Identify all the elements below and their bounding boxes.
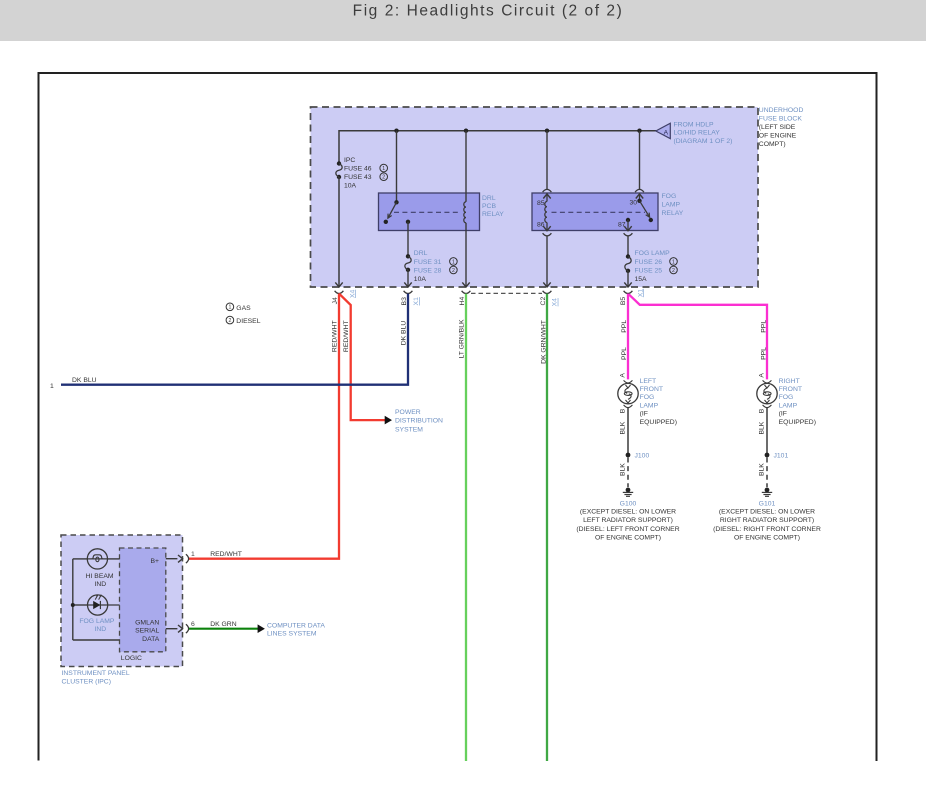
svg-text:FOG LAMP: FOG LAMP	[635, 250, 671, 257]
wire BLK dashed to ground	[766, 458, 768, 488]
svg-text:DRL: DRL	[414, 250, 428, 257]
svg-text:DK BLU: DK BLU	[72, 377, 97, 384]
svg-text:FUSE 28: FUSE 28	[414, 267, 442, 274]
svg-text:2: 2	[672, 268, 675, 274]
svg-text:G101: G101	[759, 500, 776, 507]
wire BLK dashed to ground	[627, 458, 629, 488]
svg-text:GMLAN: GMLAN	[135, 619, 159, 626]
svg-text:FROM HDLP: FROM HDLP	[674, 121, 714, 128]
svg-text:LAMP: LAMP	[779, 402, 798, 409]
svg-text:1: 1	[382, 166, 385, 172]
svg-text:(DIESEL: LEFT FRONT CORNER: (DIESEL: LEFT FRONT CORNER	[576, 526, 679, 533]
dashed link fog relay	[552, 211, 646, 213]
relay: FOG LAMP RELAY box	[532, 193, 658, 231]
svg-text:OF ENGINE COMPT): OF ENGINE COMPT)	[595, 535, 661, 542]
svg-text:OF ENGINE COMPT): OF ENGINE COMPT)	[734, 535, 800, 542]
svg-text:SERIAL: SERIAL	[135, 627, 159, 634]
svg-text:LOGIC: LOGIC	[121, 655, 142, 662]
svg-text:(DIESEL: RIGHT FRONT CORNER: (DIESEL: RIGHT FRONT CORNER	[713, 526, 821, 533]
switch: fog relay contacts 30/87	[637, 199, 641, 203]
svg-text:IND: IND	[94, 626, 106, 633]
svg-text:FRONT: FRONT	[640, 386, 663, 393]
svg-text:EQUIPPED): EQUIPPED)	[640, 419, 677, 426]
wire DK BLU: circuit 1 to B3	[61, 294, 408, 385]
svg-text:DIESEL: DIESEL	[236, 318, 260, 325]
logic block GMLAN	[120, 548, 166, 652]
svg-text:FUSE 26: FUSE 26	[635, 259, 663, 266]
node: junction fog relay pin30 feed	[637, 129, 641, 133]
wire PPL: branch to right fog lamp	[629, 294, 767, 379]
svg-text:FRONT: FRONT	[779, 386, 802, 393]
svg-text:1: 1	[191, 551, 195, 558]
svg-text:RED/WHT: RED/WHT	[210, 551, 242, 558]
IPC pin 1 B+ output	[166, 558, 178, 560]
svg-text:LEFT RADIATOR SUPPORT): LEFT RADIATOR SUPPORT)	[583, 517, 673, 524]
svg-text:(DIAGRAM 1 OF 2): (DIAGRAM 1 OF 2)	[674, 138, 733, 145]
fuse: IPC FUSE 46/43 10A	[337, 161, 341, 165]
ground G101	[765, 488, 770, 493]
IPC pin 6 GMLAN output	[166, 628, 178, 630]
svg-text:J101: J101	[774, 453, 789, 460]
node: junction fog relay coil feed	[545, 129, 549, 133]
connector cups at fuse block bottom	[335, 291, 344, 294]
svg-text:CLUSTER (IPC): CLUSTER (IPC)	[62, 679, 111, 686]
svg-text:X1: X1	[637, 289, 644, 298]
svg-text:FUSE BLOCK: FUSE BLOCK	[759, 115, 803, 122]
svg-text:RIGHT: RIGHT	[779, 378, 800, 385]
fuse: DRL FUSE 31/28 10A	[406, 254, 410, 258]
wire PPL: B5 to left fog lamp	[627, 294, 629, 380]
wire: DRL relay switch output to fuse	[407, 222, 409, 256]
underhood fuse block	[311, 107, 759, 287]
wire: fog fuse to B5	[627, 271, 629, 286]
coil: fog relay coil 85-86	[545, 202, 547, 223]
svg-text:DRL: DRL	[482, 195, 496, 202]
node: ipc left junction	[71, 603, 75, 607]
LED: FOG LAMP IND	[88, 604, 120, 606]
svg-text:DK GRN: DK GRN	[210, 621, 237, 628]
IPC internal wires	[73, 558, 88, 560]
node J100	[626, 453, 631, 458]
svg-text:BLK: BLK	[758, 421, 765, 434]
svg-text:X4: X4	[552, 298, 559, 307]
instrument panel cluster (IPC) box	[61, 535, 183, 667]
wire BLK to junction	[627, 408, 629, 453]
node: junction DRL coil feed	[464, 129, 468, 133]
svg-text:PPL: PPL	[760, 347, 767, 360]
svg-text:B5: B5	[620, 297, 627, 306]
svg-text:(EXCEPT DIESEL: ON LOWER: (EXCEPT DIESEL: ON LOWER	[580, 508, 676, 515]
arrow to COMPUTER DATA LINES SYSTEM	[258, 624, 265, 633]
svg-text:FUSE 25: FUSE 25	[635, 267, 663, 274]
header bar	[0, 0, 926, 41]
svg-text:LEFT: LEFT	[640, 378, 657, 385]
svg-text:PCB: PCB	[482, 203, 496, 210]
svg-text:2: 2	[382, 175, 385, 181]
svg-text:A: A	[664, 129, 669, 136]
diagram border frame	[39, 73, 877, 761]
svg-text:BLK: BLK	[758, 463, 765, 476]
svg-text:BLK: BLK	[619, 421, 626, 434]
wire: IPC fuse to J4	[338, 177, 340, 286]
svg-text:1: 1	[672, 259, 675, 265]
svg-text:10A: 10A	[414, 276, 427, 283]
svg-text:COMPUTER DATA: COMPUTER DATA	[267, 622, 325, 629]
svg-text:IND: IND	[94, 581, 106, 588]
svg-text:B: B	[759, 408, 766, 413]
svg-text:A: A	[758, 373, 765, 378]
wire: bus to DRL relay switch	[396, 131, 398, 203]
svg-text:10A: 10A	[344, 183, 357, 190]
svg-text:PPL: PPL	[621, 320, 628, 333]
fuse: FOG LAMP FUSE 26/25 15A	[626, 254, 630, 258]
svg-text:HI BEAM: HI BEAM	[86, 573, 114, 580]
svg-text:DATA: DATA	[142, 636, 160, 643]
wire: fog coil 86 to C2	[546, 236, 548, 286]
svg-text:LAMP: LAMP	[662, 201, 681, 208]
svg-text:FOG: FOG	[640, 394, 655, 401]
svg-text:LO/HID RELAY: LO/HID RELAY	[674, 130, 721, 137]
svg-text:1: 1	[452, 259, 455, 265]
svg-text:X1: X1	[413, 297, 420, 306]
svg-text:6: 6	[191, 621, 195, 628]
wire: pin 87 to fog lamp fuse	[627, 236, 629, 257]
svg-text:IPC: IPC	[344, 157, 355, 164]
svg-text:EQUIPPED): EQUIPPED)	[779, 419, 816, 426]
wire: bus to fog relay coil pin 85	[546, 131, 548, 190]
svg-text:PPL: PPL	[621, 347, 628, 360]
node J101	[765, 453, 770, 458]
lamp: HI BEAM IND	[87, 558, 107, 560]
svg-text:FOG LAMP: FOG LAMP	[79, 618, 115, 625]
svg-text:BLK: BLK	[619, 463, 626, 476]
svg-text:RELAY: RELAY	[482, 211, 504, 218]
svg-text:DK GRN/WHT: DK GRN/WHT	[540, 320, 547, 364]
wire RED/WHT 1: J4 to IPC B+	[189, 294, 339, 559]
svg-text:FOG: FOG	[779, 394, 794, 401]
svg-text:B: B	[620, 408, 627, 413]
wire: bus to fog relay pin 30	[639, 131, 641, 190]
svg-text:COMPT): COMPT)	[759, 141, 786, 148]
svg-text:LT GRN/BLK: LT GRN/BLK	[458, 319, 465, 358]
svg-text:FUSE 43: FUSE 43	[344, 174, 372, 181]
wire RED/WHT 2: J4 to power distribution	[339, 294, 386, 421]
svg-text:PPL: PPL	[760, 320, 767, 333]
wire LT GRN/BLK: H4 down	[465, 294, 467, 761]
svg-text:30: 30	[629, 199, 637, 206]
svg-text:OF ENGINE: OF ENGINE	[759, 132, 797, 139]
arrow to POWER DISTRIBUTION SYSTEM	[385, 416, 392, 425]
relay K: DRL PCB RELAY box	[379, 193, 480, 231]
svg-text:1: 1	[50, 383, 54, 390]
dashed connector line H4-C2	[471, 292, 542, 294]
svg-text:FUSE 31: FUSE 31	[414, 259, 442, 266]
node: junction DRL switch feed	[394, 129, 398, 133]
svg-text:(LEFT SIDE: (LEFT SIDE	[759, 124, 796, 131]
wire DK GRN: GMLAN serial data	[189, 628, 258, 630]
off-page connector A: FROM HDLP LO/HID RELAY	[656, 123, 671, 138]
svg-text:(IF: (IF	[640, 411, 648, 418]
svg-text:85: 85	[537, 200, 545, 207]
svg-text:LAMP: LAMP	[640, 402, 659, 409]
wire: main feed bus	[339, 131, 656, 164]
svg-text:G100: G100	[620, 500, 637, 507]
switch: DRL relay contacts	[394, 200, 398, 204]
svg-text:X4: X4	[349, 289, 356, 298]
svg-text:RELAY: RELAY	[662, 210, 684, 217]
svg-text:RIGHT RADIATOR SUPPORT): RIGHT RADIATOR SUPPORT)	[720, 517, 814, 524]
svg-text:2: 2	[228, 318, 231, 324]
svg-text:DISTRIBUTION: DISTRIBUTION	[395, 418, 443, 425]
svg-text:15A: 15A	[635, 276, 648, 283]
svg-text:GAS: GAS	[236, 305, 251, 312]
svg-text:(IF: (IF	[779, 411, 787, 418]
svg-text:1: 1	[228, 305, 231, 311]
svg-text:B+: B+	[150, 558, 159, 565]
svg-text:LINES SYSTEM: LINES SYSTEM	[267, 631, 317, 638]
svg-text:(EXCEPT DIESEL: ON LOWER: (EXCEPT DIESEL: ON LOWER	[719, 508, 815, 515]
wire BLK to junction	[766, 408, 768, 453]
svg-text:J100: J100	[635, 453, 650, 460]
ground G100	[626, 488, 631, 493]
legend: 1 GAS / 2 DIESEL	[226, 303, 234, 311]
dashed link DRL relay	[394, 211, 461, 213]
wire: DRL fuse to B3	[407, 270, 409, 286]
svg-text:SYSTEM: SYSTEM	[395, 426, 423, 433]
svg-text:FUSE 46: FUSE 46	[344, 165, 372, 172]
svg-text:2: 2	[452, 268, 455, 274]
svg-text:DK BLU: DK BLU	[400, 321, 407, 346]
wire DK GRN/WHT: C2 down	[546, 294, 548, 761]
svg-text:FOG: FOG	[662, 193, 677, 200]
svg-text:RED/WHT: RED/WHT	[331, 320, 338, 352]
svg-text:INSTRUMENT PANEL: INSTRUMENT PANEL	[62, 670, 130, 677]
coil: DRL relay coil	[465, 131, 467, 202]
svg-text:POWER: POWER	[395, 409, 421, 416]
svg-text:Fig 2: Headlights Circuit (2 o: Fig 2: Headlights Circuit (2 of 2)	[353, 2, 624, 19]
svg-text:RED/WHT: RED/WHT	[343, 320, 350, 352]
svg-text:UNDERHOOD: UNDERHOOD	[759, 107, 804, 114]
svg-text:A: A	[619, 373, 626, 378]
